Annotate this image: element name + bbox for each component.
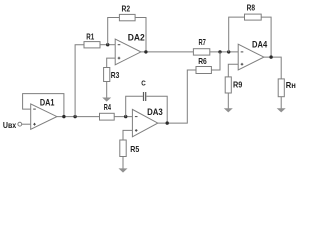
junction dot R6 branch — [218, 50, 221, 53]
resistor R9 — [225, 77, 231, 93]
resistor R8 — [245, 14, 262, 20]
svg-text:R6: R6 — [198, 56, 207, 66]
svg-text:DA4: DA4 — [252, 39, 267, 49]
junction dot DA3 output — [166, 121, 169, 124]
wire DA2 output to R7 — [141, 51, 194, 53]
svg-text:R5: R5 — [130, 144, 139, 154]
svg-text:R4: R4 — [104, 102, 111, 112]
wire DA4 + input down to R9 — [228, 64, 238, 77]
wire R2 feedback right branch to DA2 output — [135, 18, 146, 52]
wire R7 to DA4 - input — [210, 51, 238, 53]
resistor R6 — [196, 67, 211, 74]
wire R8 feedback left branch — [229, 17, 245, 52]
junction dot R1 branch — [73, 115, 76, 118]
junction dot DA4 output — [269, 55, 272, 58]
wire DA4 output to Rн — [264, 57, 281, 79]
wire DA3 + input down to R5 — [123, 130, 132, 140]
input terminal Uvx circle — [18, 122, 22, 126]
resistor R1 — [84, 42, 100, 48]
wire DA1 output to R4 (bottom bus) — [57, 116, 100, 118]
svg-text:R1: R1 — [86, 31, 94, 41]
junction dot DA2 output — [144, 50, 147, 53]
wire R1 to DA2 - input — [100, 44, 115, 46]
wire R2 feedback left branch — [108, 18, 120, 45]
svg-text:R7: R7 — [199, 37, 207, 47]
svg-text:DA2: DA2 — [128, 32, 145, 42]
svg-text:Uвх: Uвх — [3, 120, 17, 130]
ground arrow below R5 — [119, 157, 128, 173]
wire DA2 + input down to R3 — [107, 58, 116, 67]
wire C feedback left branch — [126, 96, 143, 116]
svg-text:R2: R2 — [122, 4, 131, 14]
resistor R2 — [119, 14, 135, 20]
wire R4 to DA3 - input — [114, 116, 132, 118]
svg-text:R3: R3 — [111, 70, 120, 80]
svg-text:R8: R8 — [247, 3, 256, 13]
op-amp DA4 — [238, 44, 264, 70]
svg-text:R9: R9 — [233, 80, 243, 90]
wire R6 to node after R7 — [211, 52, 220, 70]
wire DA1 feedback loop (output to - input) — [23, 94, 64, 117]
op-amp DA1 — [31, 104, 57, 129]
resistor R4 — [100, 113, 115, 120]
svg-text:DA1: DA1 — [40, 98, 55, 108]
svg-text:C: C — [141, 79, 146, 88]
resistor R5 — [120, 140, 126, 157]
wire C feedback right branch to DA3 output — [146, 96, 167, 123]
wire DA3 output to R6 — [158, 70, 196, 123]
junction dot R2 feedback left — [106, 43, 109, 46]
svg-text:Rн: Rн — [286, 80, 296, 90]
op-amp DA3 — [132, 109, 157, 136]
resistor Rн (load) — [278, 79, 284, 97]
ground arrow below R9 — [224, 93, 233, 112]
resistor R7 — [193, 49, 209, 55]
junction dot DA1 feedback — [62, 115, 65, 118]
ground arrow below R3 — [102, 82, 111, 102]
junction dot C feedback left — [124, 115, 127, 118]
capacitor C — [144, 92, 146, 101]
junction dot R8 feedback left — [227, 50, 230, 53]
wire Uвх to DA1 + input — [22, 123, 31, 125]
wire R8 feedback right branch to DA4 output — [261, 17, 271, 57]
svg-text:DA3: DA3 — [147, 107, 163, 117]
resistor R3 — [104, 68, 110, 82]
ground arrow below Rн — [277, 97, 286, 113]
op-amp DA2 — [115, 39, 141, 65]
wire R1 branch up from bottom bus — [75, 45, 84, 117]
